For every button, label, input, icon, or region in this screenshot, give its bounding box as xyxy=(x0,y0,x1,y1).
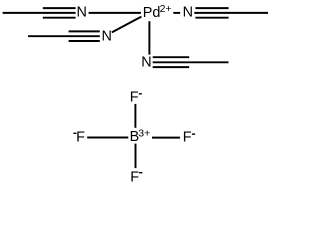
svg-text:Pd: Pd xyxy=(143,5,161,21)
svg-text:2+: 2+ xyxy=(160,3,172,15)
svg-text:F: F xyxy=(130,170,139,186)
svg-text:F: F xyxy=(130,90,139,106)
svg-text:N: N xyxy=(183,5,193,21)
svg-text:F: F xyxy=(76,129,85,145)
svg-text:F: F xyxy=(183,129,192,145)
svg-text:N: N xyxy=(101,29,111,45)
svg-text:N: N xyxy=(76,5,86,21)
svg-text:N: N xyxy=(141,54,151,70)
svg-text:3+: 3+ xyxy=(138,127,150,139)
